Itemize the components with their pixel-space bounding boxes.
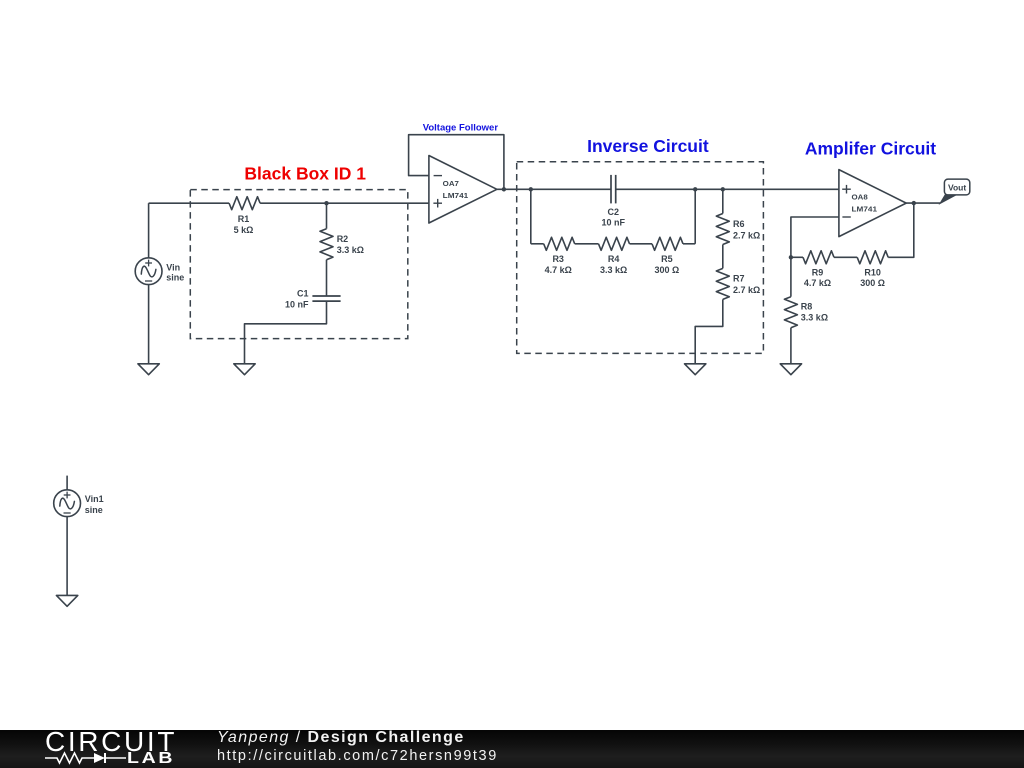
svg-text:3.3 kΩ: 3.3 kΩ	[600, 265, 627, 275]
resistor R6	[716, 189, 729, 244]
node: R6 top junction	[721, 187, 725, 191]
wire: C2 to OA8 + input	[616, 188, 839, 190]
svg-text:2.7 kΩ: 2.7 kΩ	[733, 230, 760, 240]
svg-text:sine: sine	[166, 273, 184, 283]
svg-text:10 nF: 10 nF	[285, 299, 309, 309]
svg-text:10 nF: 10 nF	[602, 218, 626, 228]
node: branch right junction	[693, 187, 697, 191]
svg-text:R10: R10	[864, 267, 881, 277]
label OA8 LM741	[852, 193, 878, 214]
net flag Vout	[940, 179, 970, 204]
voltage source Vin1	[54, 490, 81, 517]
svg-text:C1: C1	[297, 289, 309, 299]
inverse circuit boundary (dashed)	[517, 162, 764, 354]
capacitor C1	[312, 296, 340, 301]
wire: OA8 output to Vout	[906, 202, 940, 204]
label OA7 LM741	[443, 179, 469, 200]
label R4 3.3 kOhm	[600, 254, 627, 275]
resistor R7	[716, 268, 729, 299]
resistor R8	[784, 257, 797, 364]
svg-text:LM741: LM741	[852, 205, 878, 214]
capacitor C2	[611, 175, 616, 204]
svg-text:Inverse Circuit: Inverse Circuit	[587, 136, 709, 156]
label R3 4.7 kOhm	[545, 254, 572, 275]
svg-text:2.7 kΩ: 2.7 kΩ	[733, 285, 760, 295]
title Amplifer Circuit	[805, 139, 936, 159]
voltage source Vin	[135, 258, 162, 285]
resistor R9	[791, 251, 834, 264]
svg-text:R8: R8	[801, 301, 813, 311]
wire: Vin1 top stub	[66, 476, 68, 490]
svg-text:R9: R9	[812, 267, 824, 277]
svg-text:Amplifer Circuit: Amplifer Circuit	[805, 139, 936, 159]
svg-text:5 kΩ: 5 kΩ	[234, 225, 254, 235]
wire: R9 to R10	[834, 256, 857, 258]
wire: Vin1 to ground	[66, 517, 68, 596]
title Inverse Circuit	[587, 136, 709, 156]
label R10 300 Ohm	[860, 267, 885, 288]
title Black Box ID 1	[244, 164, 366, 184]
svg-text:4.7 kΩ: 4.7 kΩ	[545, 265, 572, 275]
CircuitLab logo	[45, 730, 175, 768]
svg-text:OA8: OA8	[852, 193, 868, 202]
label Vin1 sine	[85, 494, 104, 515]
svg-text:300 Ω: 300 Ω	[860, 278, 885, 288]
footer text	[217, 730, 617, 768]
svg-text:R1: R1	[238, 214, 250, 224]
svg-text:R3: R3	[552, 254, 564, 264]
label R9 4.7 kOhm	[804, 267, 831, 288]
resistor R3	[544, 237, 575, 250]
label R1 5 kOhm	[234, 214, 254, 235]
svg-text:C2: C2	[608, 207, 620, 217]
resistor R4	[599, 237, 630, 250]
svg-text:R7: R7	[733, 274, 745, 284]
wire: C1 to ground (jog)	[245, 301, 327, 364]
svg-text:300 Ω: 300 Ω	[655, 265, 680, 275]
label R8 3.3 kOhm	[801, 301, 828, 322]
svg-text:Black Box ID 1: Black Box ID 1	[244, 164, 366, 184]
svg-text:sine: sine	[85, 505, 103, 515]
resistor R1	[229, 197, 260, 210]
wire: R10 to OA8 output	[888, 203, 914, 257]
svg-text:LM741: LM741	[443, 191, 469, 200]
wire: R6 to R7	[722, 245, 724, 269]
label R2 3.3 kOhm	[337, 234, 364, 255]
svg-text:Vin: Vin	[166, 262, 180, 272]
resistor R10	[857, 251, 888, 264]
svg-text:3.3 kΩ: 3.3 kΩ	[801, 313, 828, 323]
wire: lower branch left vertical	[531, 189, 544, 244]
node: OA8 output junction	[912, 201, 916, 205]
op-amp OA7	[429, 156, 497, 224]
wire: OA8 feedback (minus input)	[791, 217, 839, 257]
wire: OA7 output to C2	[497, 188, 611, 190]
wire: R1 to op-amp OA7 + input	[260, 202, 429, 204]
node: OA7 output junction	[502, 187, 506, 191]
wire: R3 to R4	[575, 243, 599, 245]
wire: OA7 feedback loop	[409, 135, 504, 190]
label R7 2.7 kOhm	[733, 274, 760, 295]
svg-text:R2: R2	[337, 234, 349, 244]
svg-text:R6: R6	[733, 219, 745, 229]
ground (Vin1)	[56, 595, 77, 606]
op-amp OA8	[839, 170, 906, 237]
svg-text:OA7: OA7	[443, 179, 459, 188]
svg-text:Vin1: Vin1	[85, 494, 104, 504]
resistor R5	[652, 237, 683, 250]
wire: R4 to R5	[630, 243, 653, 245]
wire: R7 to ground (jog)	[695, 299, 723, 363]
svg-text:R5: R5	[661, 254, 673, 264]
resistor R2	[320, 203, 333, 296]
footer bar	[0, 730, 1024, 768]
label C2 10 nF	[602, 207, 626, 228]
label Vin sine	[166, 262, 184, 282]
node: R9/R8 junction	[789, 255, 793, 259]
wire: lower branch right vertical	[683, 189, 695, 244]
label C1 10 nF	[285, 289, 309, 310]
svg-text:3.3 kΩ: 3.3 kΩ	[337, 245, 364, 255]
ground (inverse circuit)	[685, 364, 706, 375]
ground (below black box)	[234, 364, 255, 375]
label R5 300 Ohm	[655, 254, 680, 275]
svg-text:Voltage Follower: Voltage Follower	[423, 122, 499, 133]
black box boundary (dashed)	[190, 190, 407, 339]
svg-text:R4: R4	[608, 254, 620, 264]
label R6 2.7 kOhm	[733, 219, 760, 240]
node: R1/R2 junction	[324, 201, 328, 205]
label Voltage Follower	[423, 122, 499, 133]
ground (below Vin)	[138, 364, 159, 375]
wire: Vin top to R1	[149, 203, 230, 258]
svg-text:Vout: Vout	[948, 182, 966, 192]
svg-text:4.7 kΩ: 4.7 kΩ	[804, 278, 831, 288]
ground (amplifier)	[780, 364, 801, 375]
wire: Vin bottom to ground	[148, 285, 150, 364]
node: branch left junction	[529, 187, 533, 191]
